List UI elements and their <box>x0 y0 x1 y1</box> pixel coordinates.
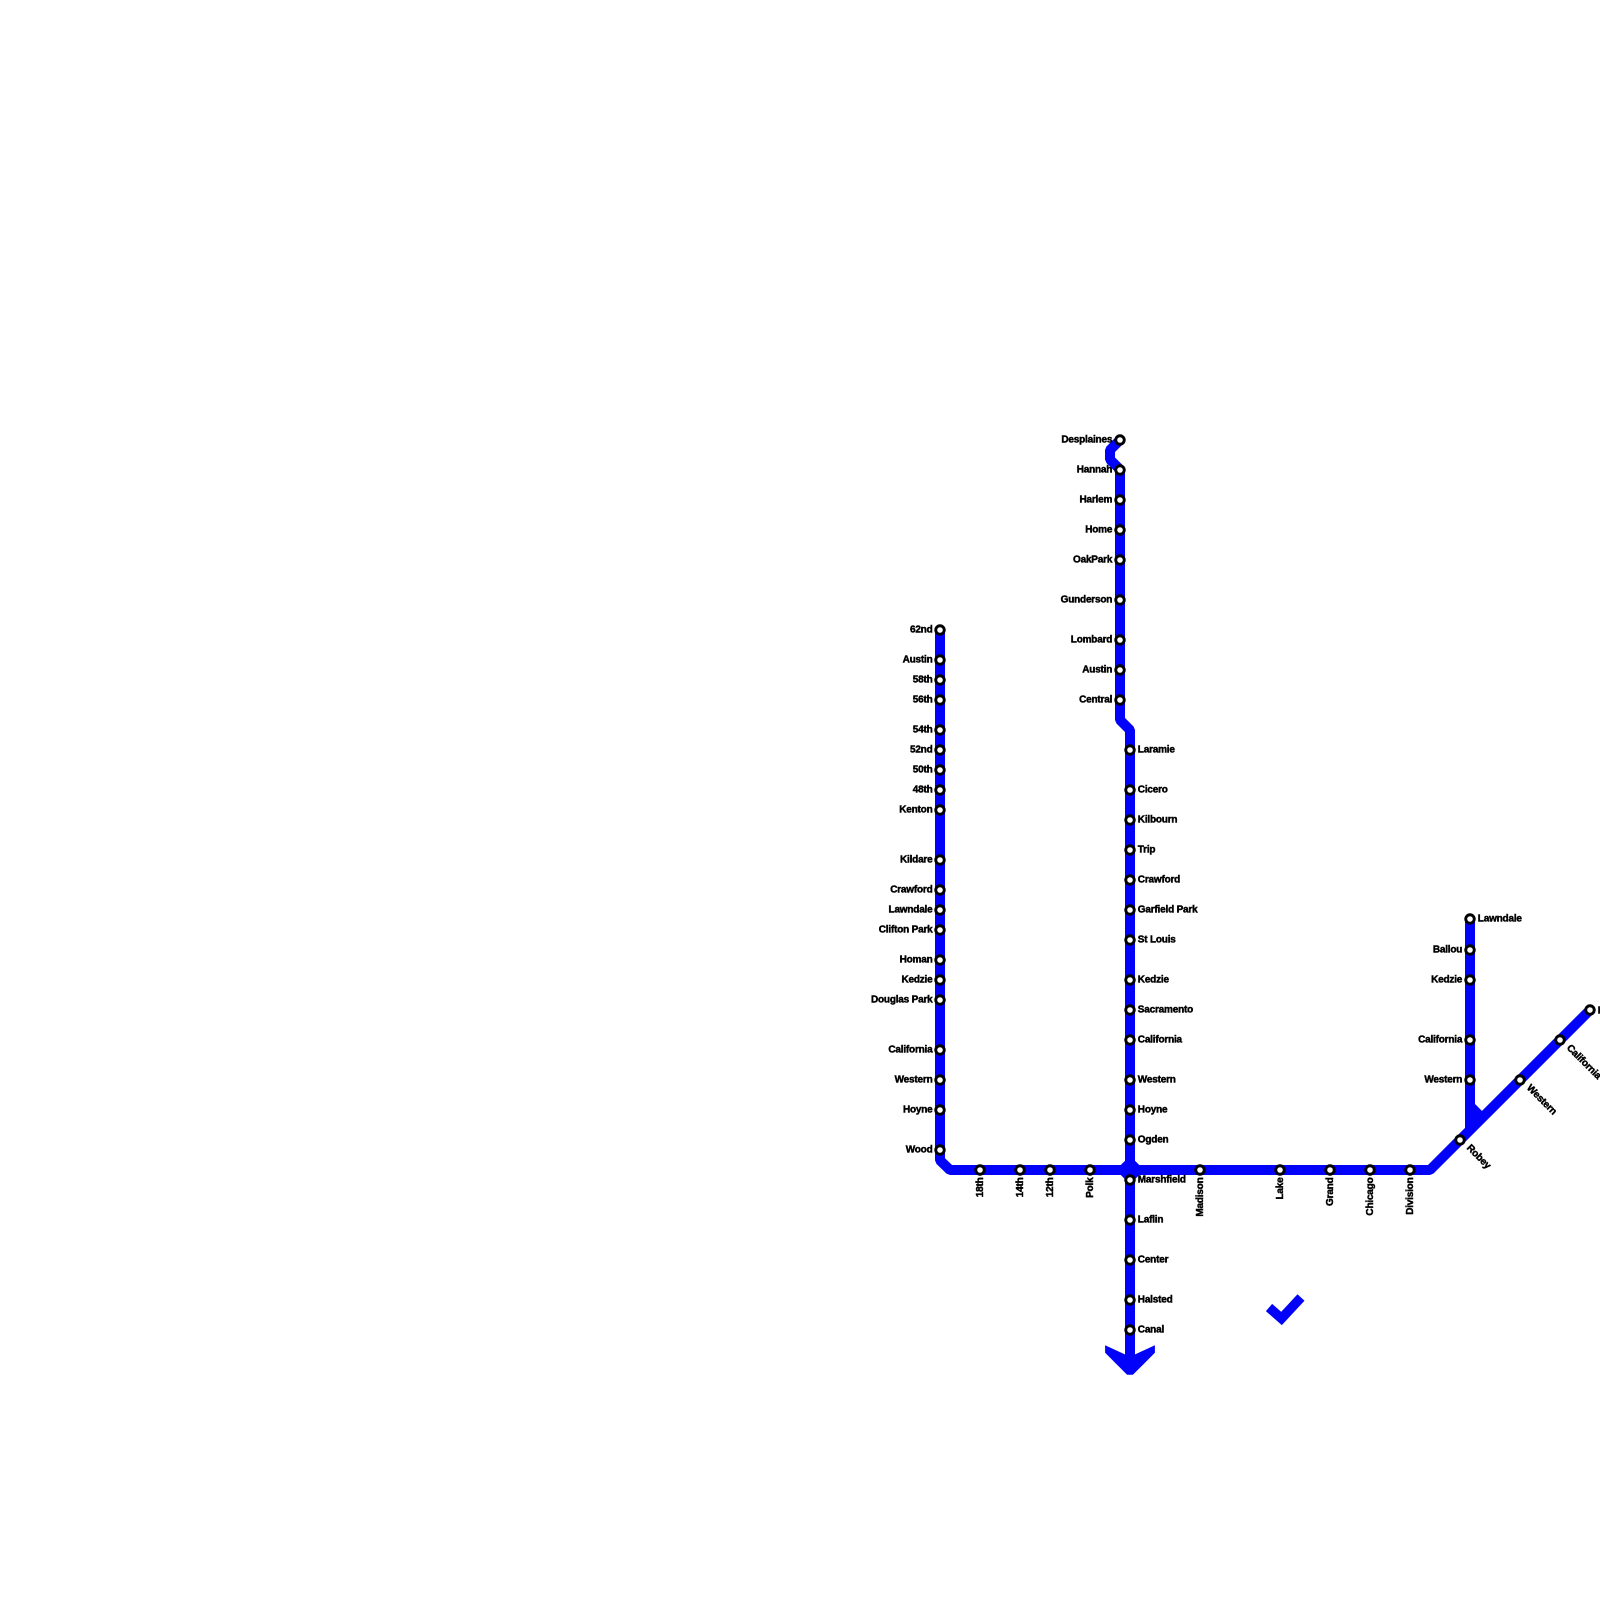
station Wood (left branch) <box>906 1144 945 1155</box>
svg-text:Madison: Madison <box>1195 1177 1206 1216</box>
station Kedzie (right branch) <box>1431 974 1474 985</box>
junction diamond at Marshfield crossing <box>1116 1156 1144 1184</box>
svg-text:Hoyne: Hoyne <box>903 1104 933 1115</box>
station 56th (left branch) <box>913 694 945 705</box>
svg-text:Laramie: Laramie <box>1138 744 1176 755</box>
station Douglas Park (left branch) <box>871 994 944 1005</box>
svg-text:Cicero: Cicero <box>1138 784 1168 795</box>
svg-text:Kenton: Kenton <box>899 804 932 815</box>
arrow: south terminal arrowhead below Canal <box>1105 1345 1155 1375</box>
station Home (main line north) <box>1085 524 1124 535</box>
svg-text:OakPark: OakPark <box>1073 554 1113 565</box>
svg-text:Homan: Homan <box>900 954 933 965</box>
station Lake (downtown trunk) <box>1275 1166 1286 1200</box>
svg-text:Garfield Park: Garfield Park <box>1138 904 1198 915</box>
svg-text:62nd: 62nd <box>910 624 933 635</box>
station 54th (left branch) <box>913 724 945 735</box>
svg-text:14th: 14th <box>1015 1177 1026 1197</box>
station 50th (left branch) <box>913 764 945 775</box>
station Ballou (right branch) <box>1433 944 1474 955</box>
station California (left branch) <box>888 1044 944 1055</box>
svg-text:Hoyne: Hoyne <box>1138 1104 1168 1115</box>
svg-text:Polk: Polk <box>1085 1177 1096 1198</box>
wire: right branch Lawndale-junction <box>1465 919 1475 1129</box>
station Trip (main line south) <box>1126 844 1156 855</box>
station California (main line south) <box>1126 1034 1183 1045</box>
svg-text:Lake: Lake <box>1275 1177 1286 1200</box>
station St Louis (main line south) <box>1126 934 1177 945</box>
svg-text:Marshfield: Marshfield <box>1138 1174 1186 1185</box>
svg-text:Ogden: Ogden <box>1138 1134 1169 1145</box>
station Robey (diagonal) <box>1456 1136 1493 1172</box>
station Halsted (main line south) <box>1126 1294 1173 1305</box>
svg-text:Chicago: Chicago <box>1365 1177 1376 1215</box>
svg-text:Hannah: Hannah <box>1077 464 1113 475</box>
station 62nd (left branch) <box>910 624 944 635</box>
wire: left branch 62nd-Wood + horizontal trunk + NE diagonal <box>940 630 1590 1170</box>
station Austin (main line north) <box>1082 664 1124 675</box>
station Hannah (main line north) <box>1077 464 1125 475</box>
station Sacramento (main line south) <box>1126 1004 1193 1015</box>
wire: main line Desplaines-Canal with jogs <box>1110 440 1130 1371</box>
svg-text:Kedzie: Kedzie <box>1138 974 1170 985</box>
svg-text:Grand: Grand <box>1325 1177 1336 1206</box>
station Garfield Park (main line south) <box>1126 904 1198 915</box>
station Kedzie (diagonal terminal, clipped at edge) <box>1586 1006 1600 1017</box>
svg-text:Center: Center <box>1138 1254 1169 1265</box>
station Polk (downtown trunk) <box>1085 1166 1096 1198</box>
station 58th (left branch) <box>913 674 945 685</box>
station Madison (downtown trunk) <box>1195 1166 1206 1217</box>
svg-text:Kedzie: Kedzie <box>1431 974 1463 985</box>
svg-text:58th: 58th <box>913 674 933 685</box>
station 12th (downtown trunk) <box>1045 1166 1056 1198</box>
svg-text:Kilbourn: Kilbourn <box>1138 814 1178 825</box>
svg-text:Kedzie: Kedzie <box>901 974 933 985</box>
svg-text:52nd: 52nd <box>910 744 933 755</box>
station Marshfield (main line south) <box>1126 1174 1186 1185</box>
svg-text:Wood: Wood <box>906 1144 933 1155</box>
station Central (main line north) <box>1079 694 1124 705</box>
svg-text:Austin: Austin <box>903 654 933 665</box>
station Western (diagonal) <box>1516 1076 1559 1118</box>
station Ogden (main line south) <box>1126 1134 1169 1145</box>
station Lombard (main line north) <box>1071 634 1124 645</box>
svg-text:Crawford: Crawford <box>890 884 932 895</box>
station Western (right branch) <box>1424 1074 1474 1085</box>
station 52nd (left branch) <box>910 744 944 755</box>
arrow: checkmark-shaped arrowhead marker <box>1269 1298 1301 1319</box>
svg-text:Clifton Park: Clifton Park <box>879 924 933 935</box>
svg-text:Harlem: Harlem <box>1079 494 1112 505</box>
station Homan (left branch) <box>900 954 945 965</box>
svg-text:54th: 54th <box>913 724 933 735</box>
station Kedzie (main line south) <box>1126 974 1170 985</box>
station Western (main line south) <box>1126 1074 1176 1085</box>
svg-text:Desplaines: Desplaines <box>1061 434 1112 445</box>
station Gunderson (main line north) <box>1061 594 1125 605</box>
svg-text:Home: Home <box>1085 524 1113 535</box>
station 18th (downtown trunk) <box>975 1166 986 1198</box>
station Hoyne (main line south) <box>1126 1104 1168 1115</box>
svg-text:California: California <box>888 1044 933 1055</box>
svg-text:50th: 50th <box>913 764 933 775</box>
station Lawndale (left branch) <box>889 904 945 915</box>
svg-text:48th: 48th <box>913 784 933 795</box>
station Laflin (main line south) <box>1126 1214 1164 1225</box>
svg-text:Douglas Park: Douglas Park <box>871 994 933 1005</box>
station Kilbourn (main line south) <box>1126 814 1178 825</box>
station Desplaines (main line north) <box>1061 434 1124 445</box>
station 14th (downtown trunk) <box>1015 1166 1026 1198</box>
svg-text:Ballou: Ballou <box>1433 944 1462 955</box>
svg-text:Lawndale: Lawndale <box>1478 913 1523 924</box>
station Austin (left branch) <box>903 654 945 665</box>
svg-text:St Louis: St Louis <box>1138 934 1176 945</box>
station Kildare (left branch) <box>900 854 944 865</box>
station Division (downtown trunk) <box>1405 1166 1416 1215</box>
svg-text:Lombard: Lombard <box>1071 634 1112 645</box>
svg-text:Gunderson: Gunderson <box>1061 594 1113 605</box>
svg-text:Western: Western <box>1138 1074 1176 1085</box>
station Crawford (left branch) <box>890 884 944 895</box>
svg-text:Austin: Austin <box>1082 664 1112 675</box>
svg-text:Western: Western <box>1424 1074 1462 1085</box>
svg-text:56th: 56th <box>913 694 933 705</box>
svg-text:Canal: Canal <box>1138 1324 1165 1335</box>
station Chicago (downtown trunk) <box>1365 1166 1376 1216</box>
station Grand (downtown trunk) <box>1325 1166 1336 1206</box>
station Kedzie (left branch) <box>901 974 944 985</box>
svg-text:Laflin: Laflin <box>1138 1214 1164 1225</box>
svg-text:18th: 18th <box>975 1177 986 1197</box>
station Cicero (main line south) <box>1126 784 1168 795</box>
svg-text:Halsted: Halsted <box>1138 1294 1173 1305</box>
svg-text:Trip: Trip <box>1138 844 1156 855</box>
station Harlem (main line north) <box>1079 494 1124 505</box>
svg-text:Division: Division <box>1405 1177 1416 1214</box>
wire: branch-diagonal merge tail <box>1470 1106 1481 1117</box>
station Crawford (main line south) <box>1126 874 1180 885</box>
station California (diagonal) <box>1556 1036 1600 1082</box>
station Lawndale (right branch) <box>1466 913 1523 924</box>
station OakPark (main line north) <box>1073 554 1124 565</box>
svg-text:Western: Western <box>895 1074 933 1085</box>
svg-text:California: California <box>1138 1034 1183 1045</box>
station Laramie (main line south) <box>1126 744 1176 755</box>
svg-text:12th: 12th <box>1045 1177 1056 1197</box>
station Clifton Park (left branch) <box>879 924 944 935</box>
station 48th (left branch) <box>913 784 945 795</box>
svg-text:Central: Central <box>1079 694 1112 705</box>
station California (right branch) <box>1418 1034 1474 1045</box>
svg-text:Crawford: Crawford <box>1138 874 1180 885</box>
svg-text:Lawndale: Lawndale <box>889 904 934 915</box>
svg-text:Kildare: Kildare <box>900 854 933 865</box>
station Canal (main line south) <box>1126 1324 1165 1335</box>
station Hoyne (left branch) <box>903 1104 944 1115</box>
station Kenton (left branch) <box>899 804 944 815</box>
station Center (main line south) <box>1126 1254 1169 1265</box>
svg-text:California: California <box>1418 1034 1463 1045</box>
svg-text:Sacramento: Sacramento <box>1138 1004 1193 1015</box>
station Western (left branch) <box>895 1074 945 1085</box>
